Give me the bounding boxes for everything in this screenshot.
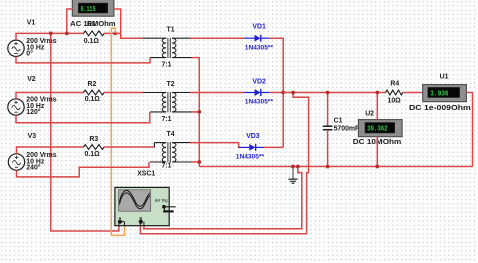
capacitor C1 5700mF: [323, 93, 333, 167]
junction U2 top / plus row: [375, 91, 379, 95]
svg-text:0.1Ω: 0.1Ω: [85, 96, 101, 103]
multimeter (top, across R1) display 0.115: [72, 0, 114, 16]
transformer T4 (7:1): [150, 142, 192, 162]
svg-text:C1: C1: [334, 118, 343, 125]
svg-text:VD3: VD3: [246, 133, 260, 140]
wire T2 secondary bottom to return bus: [192, 111, 200, 113]
svg-text:R3: R3: [89, 136, 98, 143]
svg-text:7:1: 7:1: [162, 116, 172, 123]
junction R1 right node: [113, 32, 117, 36]
diode VD1 1N4305: [244, 35, 269, 42]
svg-text:Ext Trig: Ext Trig: [155, 199, 167, 203]
oscilloscope channel A terminal: [118, 216, 125, 226]
svg-text:VD1: VD1: [252, 23, 266, 30]
svg-text:240°: 240°: [26, 164, 40, 172]
junction U2 bottom / return rail: [375, 165, 379, 169]
svg-text:V3: V3: [28, 133, 37, 140]
wire U1 output to return rail: [466, 93, 472, 167]
ammeter U1 display 3.936: [423, 85, 467, 102]
svg-text:XSC1: XSC1: [137, 170, 155, 177]
ground: [289, 167, 298, 184]
svg-text:0°: 0°: [26, 50, 33, 58]
wire VD1 cathode to plus bus: [269, 38, 283, 147]
wire R1 right node: [104, 32, 115, 34]
wire plus output row: [283, 92, 386, 94]
junction T2 return on bus: [197, 110, 201, 114]
wire V2 bottom node: [16, 112, 150, 123]
wire R2 to T2 primary: [104, 92, 143, 94]
diode VD3 1N4305: [239, 144, 264, 151]
svg-text:R2: R2: [88, 81, 97, 88]
svg-text:7:1: 7:1: [162, 163, 172, 170]
svg-text:7:1: 7:1: [162, 62, 172, 69]
wire V1 top to scope A+ (vertical drop): [51, 33, 119, 231]
svg-text:U2: U2: [365, 110, 374, 117]
junction C1 top / plus row: [326, 91, 330, 95]
svg-text:VD2: VD2: [252, 78, 266, 85]
svg-text:T4: T4: [167, 131, 175, 138]
junction C1 bottom / return rail: [326, 165, 330, 169]
wire T1 secondary bottom to return bus: [192, 58, 200, 167]
svg-text:39.362: 39.362: [367, 126, 388, 134]
svg-text:U1: U1: [440, 74, 449, 81]
svg-text:V2: V2: [27, 76, 36, 83]
AC source V1: [8, 40, 24, 56]
oscilloscope Ext Trig pin: [155, 199, 176, 213]
svg-text:5700mF: 5700mF: [334, 126, 360, 133]
svg-text:0.115: 0.115: [81, 6, 96, 14]
wire R1 node to T1 primary (step down): [115, 33, 143, 38]
svg-text:AC 10MOhm: AC 10MOhm: [70, 21, 115, 28]
svg-text:0.1Ω: 0.1Ω: [85, 151, 101, 158]
voltmeter U2 display 39.362: [358, 120, 402, 137]
wire plus row branch to scope B+ (step): [140, 93, 308, 234]
svg-text:1N4305**: 1N4305**: [236, 154, 265, 161]
junction V1-top / A+ wire: [49, 32, 53, 36]
wire return rail: [199, 166, 472, 168]
transformer T2 (7:1): [143, 92, 192, 112]
wire meter right pin: [114, 9, 121, 33]
junction T4 return on bus: [197, 160, 201, 164]
oscilloscope channel B terminal: [139, 216, 144, 226]
AC source V3: [8, 154, 24, 170]
junction plus row / B+ branch: [291, 91, 295, 95]
transformer T1 (7:1): [143, 38, 192, 58]
diode VD2 1N4305: [244, 89, 269, 96]
wire V3 bottom node (jog): [17, 162, 150, 177]
svg-text:10Ω: 10Ω: [388, 98, 402, 105]
wire return rail to scope B- (step): [144, 167, 302, 229]
svg-text:1N4305**: 1N4305**: [245, 99, 274, 106]
wire R4 to U1: [403, 92, 423, 94]
svg-text:1N4305**: 1N4305**: [245, 44, 274, 51]
svg-text:DC 1e-009Ohm: DC 1e-009Ohm: [409, 105, 471, 112]
oscilloscope XSC1 body and screen: [115, 187, 169, 225]
wire V3 top node: [17, 147, 84, 154]
wire VD2 cathode to plus bus: [269, 92, 283, 94]
wire V2 top node: [16, 93, 84, 99]
wire U2 top pin: [376, 93, 378, 120]
wire VD3 cathode to plus bus: [264, 146, 283, 148]
AC source V2: [8, 99, 24, 115]
resistor R3: [84, 145, 105, 150]
svg-text:T1: T1: [167, 27, 175, 34]
svg-text:0.1Ω: 0.1Ω: [84, 38, 100, 45]
wire T2 secondary top to VD2: [190, 92, 244, 94]
svg-text:R4: R4: [390, 81, 399, 88]
wire meter left pin: [67, 9, 73, 33]
wire T4 secondary bottom to return bus: [192, 161, 200, 163]
resistor R1: [84, 31, 105, 36]
wire U2 bottom pin: [376, 137, 378, 167]
svg-text:3.936: 3.936: [430, 91, 448, 99]
junction meter-left / R1 row: [65, 32, 69, 36]
wire V1 top node: [16, 33, 84, 40]
wire V1 bottom node: [16, 57, 150, 63]
svg-text:V1: V1: [27, 20, 36, 27]
junction B- branch / return rail: [296, 165, 300, 169]
svg-text:120°: 120°: [26, 108, 40, 116]
wire R3 to T4 primary: [104, 146, 155, 148]
junction VD2 / plus bus: [281, 91, 285, 95]
wire scope A- sense (orange) from R1 node: [111, 28, 124, 235]
wire T1 secondary top to VD1: [190, 37, 244, 39]
resistor R2: [84, 90, 105, 95]
junction ground / return rail: [291, 165, 295, 169]
resistor R4: [386, 90, 403, 95]
wire T4 secondary top to VD3 (step down): [190, 143, 241, 148]
svg-text:T2: T2: [167, 81, 175, 88]
